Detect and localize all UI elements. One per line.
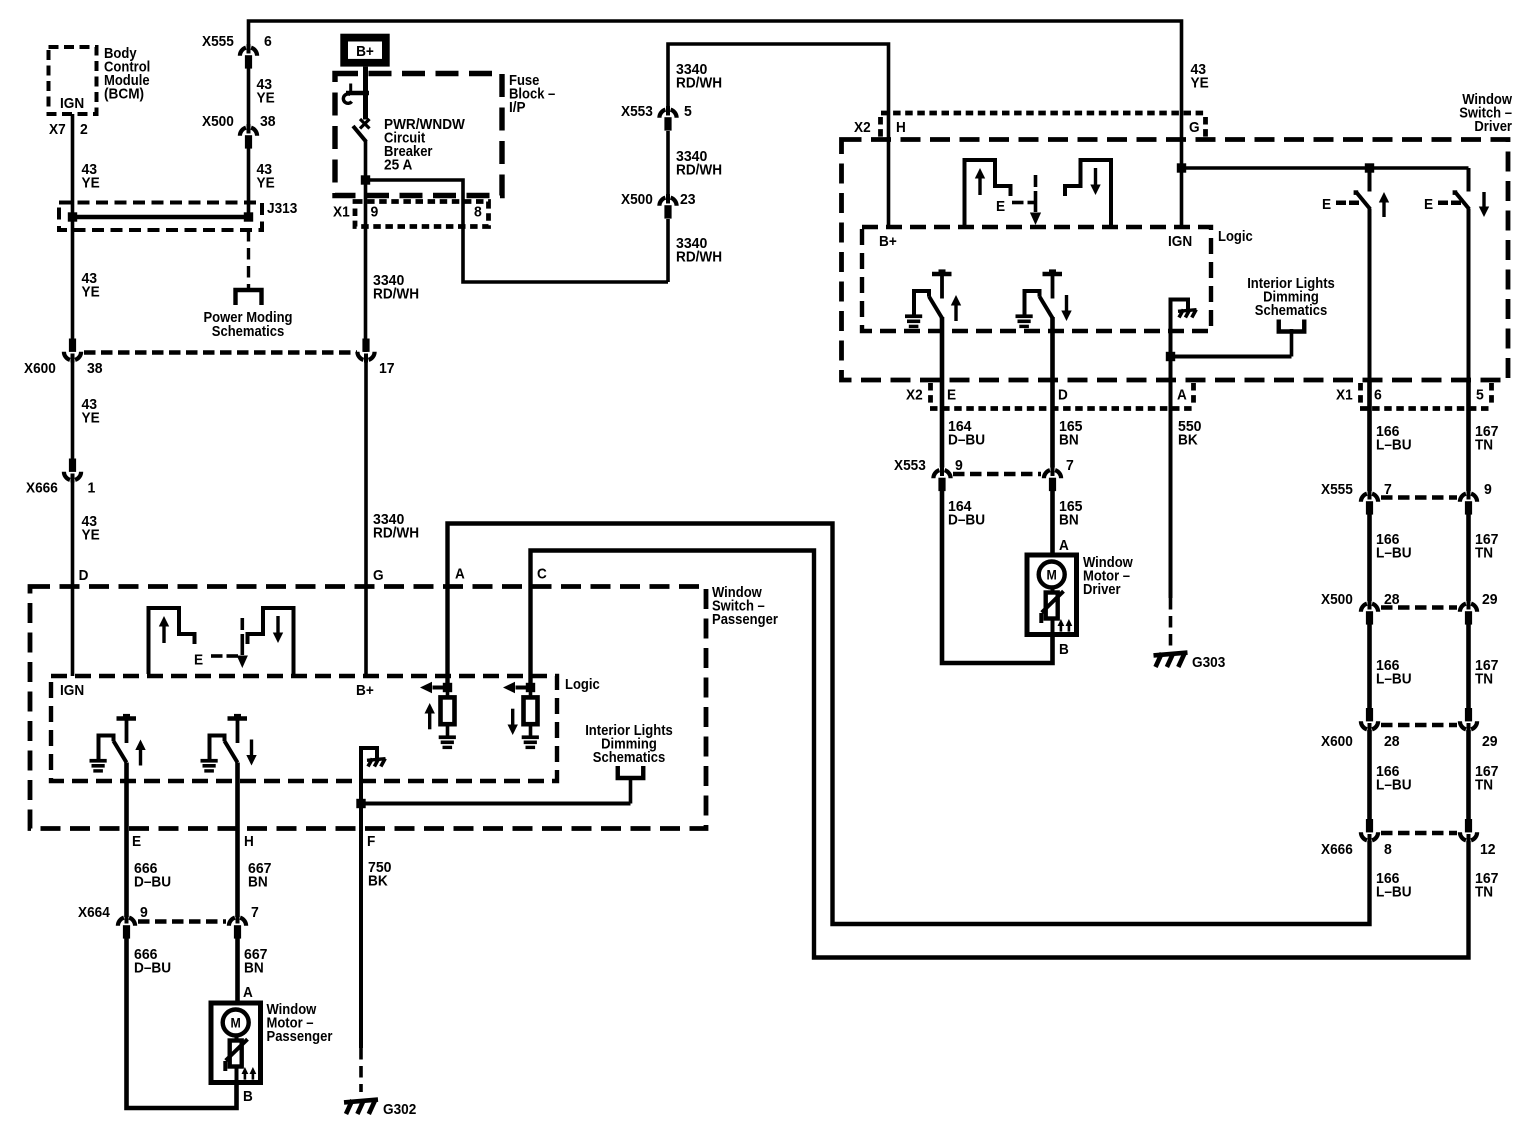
label 166 L-BU: [1376, 871, 1412, 901]
svg-text:12: 12: [1480, 842, 1496, 858]
pin F label: [367, 834, 375, 850]
wire 166 L-BU X1 to X555-7: [1367, 380, 1372, 491]
svg-text:G: G: [1189, 120, 1200, 136]
pin X7 2 of BCM: [49, 122, 88, 138]
wire 167 TN X600 to X666: [1466, 730, 1471, 819]
wire 3340 RD/WH X600-17 down to passenger G: [364, 360, 368, 676]
svg-text:17: 17: [379, 361, 395, 377]
label 167 TN: [1475, 532, 1499, 562]
svg-text:RD/WH: RD/WH: [676, 163, 722, 179]
label 166 L-BU: [1376, 424, 1412, 454]
label 167 TN: [1475, 424, 1499, 454]
label 167 TN: [1475, 871, 1499, 901]
svg-text:L–BU: L–BU: [1376, 778, 1412, 794]
label 167 TN: [1475, 658, 1499, 688]
module: Window Switch - Driver dashed box: [842, 140, 1509, 381]
svg-text:X1: X1: [333, 205, 350, 221]
svg-text:M: M: [1047, 568, 1057, 583]
ground G302: [344, 1100, 416, 1118]
svg-text:L–BU: L–BU: [1376, 672, 1412, 688]
svg-text:TN: TN: [1475, 546, 1493, 562]
wire 165 BN X553 to motor A: [1050, 488, 1055, 555]
label Body Control Module (BCM): [104, 46, 150, 103]
switch up contact (driver): [905, 269, 961, 328]
label 667 BN: [244, 947, 268, 977]
connector X555 pin 9: [1460, 482, 1492, 515]
node B+ inside passenger switch: [356, 683, 374, 699]
pin C of passenger switch: [537, 567, 547, 583]
pin A of driver motor: [1059, 538, 1069, 554]
svg-text:(BCM): (BCM): [104, 87, 144, 103]
svg-text:7: 7: [251, 905, 259, 921]
svg-text:E: E: [1322, 197, 1331, 213]
svg-text:9: 9: [371, 205, 379, 221]
svg-text:E: E: [996, 199, 1005, 215]
svg-text:5: 5: [684, 104, 692, 120]
svg-text:28: 28: [1384, 734, 1400, 750]
switch up contact (passenger): [90, 714, 146, 773]
svg-text:X555: X555: [202, 34, 234, 50]
label 167 TN: [1475, 764, 1499, 794]
connector X600 pin 28: [1321, 708, 1400, 750]
splice pack J313 dashed box: [59, 201, 297, 230]
svg-text:2: 2: [80, 122, 88, 138]
svg-text:BN: BN: [244, 961, 264, 977]
off-page connector Interior Lights Dimming (passenger): [618, 766, 644, 778]
svg-text:G303: G303: [1192, 655, 1225, 671]
svg-text:J313: J313: [267, 201, 297, 217]
svg-text:YE: YE: [82, 285, 100, 301]
module: Body Control Module (BCM) dashed box: [49, 47, 97, 114]
svg-text:Driver: Driver: [1083, 582, 1121, 598]
svg-text:G: G: [373, 568, 384, 584]
connector X555 pin 6: [202, 34, 272, 69]
label 165 BN: [1059, 499, 1083, 529]
label 43 YE: [257, 162, 275, 192]
svg-text:25 A: 25 A: [384, 158, 413, 174]
svg-text:1: 1: [88, 481, 96, 497]
rocker profile up (passenger): [149, 608, 195, 674]
svg-text:RD/WH: RD/WH: [676, 76, 722, 92]
ground stub with chassis symbol at IGN (driver): [1171, 300, 1197, 357]
inline connector dotted line X600 right: [1381, 723, 1457, 727]
connector X553 pin 9: [894, 458, 963, 491]
label 166 L-BU: [1376, 764, 1412, 794]
node IGN inside passenger switch: [60, 683, 84, 699]
svg-text:BN: BN: [248, 875, 268, 891]
svg-text:C: C: [537, 567, 547, 583]
svg-text:YE: YE: [82, 411, 100, 427]
rocker switch E up (driver right): [1322, 168, 1389, 380]
svg-text:IGN: IGN: [1168, 234, 1192, 250]
connector X555 pin 7: [1321, 482, 1392, 515]
svg-text:X664: X664: [78, 905, 111, 921]
pin B of driver motor: [1059, 642, 1069, 658]
inline connector dotted line X553: [953, 472, 1041, 476]
svg-text:29: 29: [1482, 734, 1498, 750]
svg-text:BK: BK: [368, 874, 388, 890]
svg-text:D–BU: D–BU: [134, 961, 171, 977]
module: Window Switch - Passenger dashed box: [30, 587, 706, 829]
svg-text:A: A: [1177, 388, 1187, 404]
svg-text:X1: X1: [1336, 388, 1353, 404]
wire G down to IGN junction: [1180, 113, 1184, 227]
svg-text:YE: YE: [82, 176, 100, 192]
ground G303: [1154, 653, 1226, 671]
svg-text:TN: TN: [1475, 778, 1493, 794]
junction at rocker 1: [1365, 163, 1374, 172]
junction at J313 left: [68, 212, 77, 221]
label 3340 RD/WH: [676, 149, 722, 179]
logic box of driver switch: [862, 227, 1253, 331]
svg-text:I/P: I/P: [509, 100, 526, 116]
junction at J313 right: [244, 212, 253, 221]
label 3340 RD/WH: [373, 512, 419, 542]
pin B of passenger motor: [243, 1089, 253, 1105]
label 43 YE: [257, 77, 275, 107]
wire 164 D-BU switch to X553-9: [940, 317, 945, 468]
svg-text:38: 38: [260, 114, 276, 130]
pin H label: [244, 834, 254, 850]
svg-text:E: E: [1424, 197, 1433, 213]
svg-text:X600: X600: [1321, 734, 1353, 750]
resistor branch C with down arrow: [503, 682, 539, 749]
svg-text:Logic: Logic: [1218, 229, 1253, 245]
ground stub with chassis symbol at F (passenger): [361, 748, 386, 806]
svg-text:X2: X2: [854, 120, 871, 136]
wire 43 YE from BCM pin 2 to J313: [71, 114, 75, 217]
label 3340 RD/WH: [373, 273, 419, 303]
off-page connector Interior Lights Dimming (driver): [1279, 320, 1305, 332]
svg-text:29: 29: [1482, 592, 1498, 608]
motor: Window Motor - Passenger: [211, 1003, 261, 1083]
inline connector dotted line X555: [1381, 495, 1457, 499]
label 166 L-BU: [1376, 532, 1412, 562]
inline connector dotted line X666: [1381, 831, 1457, 835]
inline connector dotted line X600: [84, 350, 357, 354]
svg-text:8: 8: [474, 205, 482, 221]
svg-text:IGN: IGN: [60, 683, 84, 699]
svg-text:D–BU: D–BU: [948, 433, 985, 449]
fuse block dashed box Fuse Block - I/P: [335, 74, 502, 196]
connector X664 pin 9: [78, 905, 148, 939]
svg-text:IGN: IGN: [60, 96, 84, 112]
svg-text:A: A: [455, 567, 465, 583]
svg-text:X555: X555: [1321, 482, 1353, 498]
svg-text:H: H: [244, 834, 254, 850]
wire 166 L-BU X500 to X600: [1367, 622, 1372, 708]
connector X666 pin 12: [1460, 819, 1496, 858]
connector X500 pin 29: [1460, 592, 1498, 625]
svg-text:G302: G302: [383, 1102, 416, 1118]
svg-text:RD/WH: RD/WH: [676, 250, 722, 266]
label Interior Lights Dimming Schematics (driver): [1247, 276, 1335, 319]
switch down contact (driver): [1016, 269, 1072, 328]
svg-text:YE: YE: [1191, 76, 1209, 92]
svg-text:Logic: Logic: [565, 677, 600, 693]
logic box of passenger switch: [51, 676, 600, 781]
svg-text:D–BU: D–BU: [134, 875, 171, 891]
label 164 D-BU: [948, 419, 985, 449]
svg-text:Passenger: Passenger: [267, 1029, 333, 1045]
label 43 YE: [82, 514, 100, 544]
svg-text:X666: X666: [1321, 842, 1353, 858]
svg-text:X500: X500: [621, 192, 653, 208]
svg-text:F: F: [367, 834, 375, 850]
svg-text:X666: X666: [26, 481, 58, 497]
label 165 BN: [1059, 419, 1083, 449]
svg-text:BN: BN: [1059, 433, 1079, 449]
node B+ inside driver switch: [879, 234, 897, 250]
svg-text:YE: YE: [257, 176, 275, 192]
wire from X555-6 up and right to driver switch G: [249, 21, 1182, 113]
svg-text:9: 9: [1484, 482, 1492, 498]
svg-text:X553: X553: [894, 458, 926, 474]
svg-text:TN: TN: [1475, 885, 1493, 901]
svg-text:B+: B+: [356, 683, 374, 699]
svg-text:RD/WH: RD/WH: [373, 287, 419, 303]
label 3340 RD/WH: [676, 236, 722, 266]
label 3340 RD/WH: [676, 62, 722, 92]
svg-text:Driver: Driver: [1474, 119, 1512, 135]
svg-text:A: A: [1059, 538, 1069, 554]
connector X666 pin 1: [26, 459, 95, 497]
bus bar inside J313: [70, 215, 250, 220]
svg-text:TN: TN: [1475, 438, 1493, 454]
wire breaker junction right to X1-8 and down: [366, 180, 669, 282]
connector X500 pin 38: [202, 114, 276, 149]
wire 667 BN from switch H to X664-7: [235, 763, 240, 918]
svg-text:9: 9: [955, 458, 963, 474]
rocker profile down (passenger): [248, 608, 294, 674]
wire from passenger logic C up right down to X666-12 167 TN: [531, 551, 1469, 958]
label Window Switch - Driver: [1459, 92, 1512, 135]
label 667 BN: [248, 861, 272, 891]
svg-text:BN: BN: [1059, 513, 1079, 529]
dashed wire J313 to Power Moding: [247, 230, 250, 289]
connector row X2 pin H: [854, 113, 1206, 137]
svg-text:Schematics: Schematics: [1255, 303, 1327, 319]
svg-text:B+: B+: [879, 234, 897, 250]
svg-text:E: E: [947, 388, 956, 404]
off-page connector to Power Moding Schematics: [236, 290, 262, 305]
wire 750 BK from F to G302: [359, 806, 363, 1092]
wire 666 D-BU X664 to motor loop: [127, 936, 237, 1108]
label Window Motor - Driver: [1083, 555, 1133, 598]
label 43 YE: [82, 271, 100, 301]
pin G of passenger switch: [373, 568, 384, 584]
wire from passenger logic A up right down to X666-8 166 L-BU: [448, 524, 1370, 925]
pin A of passenger switch: [455, 567, 465, 583]
label 666 D-BU: [134, 947, 171, 977]
svg-text:E: E: [194, 653, 203, 669]
switch down contact (passenger): [201, 714, 257, 773]
svg-text:BK: BK: [1178, 433, 1198, 449]
svg-text:YE: YE: [82, 528, 100, 544]
svg-text:6: 6: [264, 34, 272, 50]
svg-text:38: 38: [87, 361, 103, 377]
svg-text:L–BU: L–BU: [1376, 885, 1412, 901]
svg-text:X7: X7: [49, 122, 66, 138]
inline connector dotted line X664: [138, 919, 226, 923]
svg-text:Schematics: Schematics: [593, 750, 665, 766]
pin E label: [132, 834, 141, 850]
wire 550 BK to G303: [1169, 357, 1173, 653]
inline connector dotted line X500: [1381, 605, 1457, 609]
connector X553 pin 7: [1044, 458, 1074, 491]
wire 167 TN X555 to X500: [1466, 512, 1471, 601]
resistor branch A with up arrow: [420, 682, 456, 749]
label Power Moding Schematics: [204, 310, 293, 340]
wire 167 TN X500 to X600: [1466, 622, 1471, 708]
svg-text:B: B: [243, 1089, 253, 1105]
label 164 D-BU: [948, 499, 985, 529]
svg-text:6: 6: [1374, 388, 1382, 404]
label PWR/WNDW Circuit Breaker 25 A: [384, 117, 465, 174]
connector row X1 of fuse block: [333, 202, 489, 227]
rocker profile up (driver): [965, 160, 1011, 226]
svg-text:9: 9: [140, 905, 148, 921]
wire 667 BN X664 to motor A: [235, 936, 240, 1003]
connector row X2 pins E D A: [906, 383, 1194, 409]
connector X500 pin 28: [1321, 592, 1400, 625]
svg-text:Schematics: Schematics: [212, 324, 284, 340]
svg-text:23: 23: [680, 192, 696, 208]
wire 166 L-BU X600 to X666: [1367, 730, 1372, 819]
connector X600 pin 38: [24, 339, 103, 378]
svg-text:X500: X500: [1321, 592, 1353, 608]
label 43 YE (driver G): [1191, 62, 1209, 92]
wire 3340 RD/WH riser to top bus: [668, 44, 889, 282]
svg-text:B: B: [1059, 642, 1069, 658]
svg-text:M: M: [231, 1016, 241, 1031]
label 550 BK: [1178, 419, 1202, 449]
label Interior Lights Dimming Schematics (passenger): [585, 723, 673, 766]
svg-text:TN: TN: [1475, 672, 1493, 688]
svg-text:Passenger: Passenger: [712, 612, 778, 628]
wire 164 D-BU X553 to motor loop: [942, 488, 1053, 663]
wire 167 TN X1 to X555-9: [1466, 380, 1471, 491]
label 750 BK: [368, 860, 392, 890]
connector X664 pin 7: [229, 905, 259, 939]
wire 166 L-BU X555 to X500: [1367, 512, 1372, 601]
pin D of passenger switch: [79, 568, 89, 584]
svg-text:YE: YE: [257, 91, 275, 107]
svg-text:7: 7: [1066, 458, 1074, 474]
wire 165 BN switch to X553-7: [1050, 317, 1055, 468]
svg-text:L–BU: L–BU: [1376, 438, 1412, 454]
wire breaker junction to X1-9: [364, 180, 368, 352]
svg-text:8: 8: [1384, 842, 1392, 858]
label 166 L-BU: [1376, 658, 1412, 688]
pin A of passenger motor: [243, 985, 253, 1001]
wire 43 YE J313 to X600-38: [71, 217, 75, 339]
svg-text:D: D: [79, 568, 89, 584]
connector X553 pin 5: [621, 104, 692, 131]
svg-text:B+: B+: [356, 44, 374, 60]
connector X600 pin 17: [357, 339, 394, 378]
label 666 D-BU: [134, 861, 171, 891]
junction at A (driver): [1166, 352, 1175, 361]
label Window Motor - Passenger: [267, 1002, 333, 1045]
svg-text:X500: X500: [202, 114, 234, 130]
svg-text:X553: X553: [621, 104, 653, 120]
wire 43 YE X555 to X500: [247, 66, 251, 125]
wire IGN feed to rockers: [1182, 166, 1469, 170]
junction at F: [356, 799, 365, 808]
label 43 YE: [82, 162, 100, 192]
wire junction to interior-lights bracket (driver): [1171, 329, 1292, 357]
svg-text:X2: X2: [906, 388, 923, 404]
wire 666 D-BU from switch E to X664-9: [124, 763, 129, 918]
label 43 YE: [82, 397, 100, 427]
junction below breaker: [361, 175, 370, 184]
wire F junction to interior-lights bracket: [361, 777, 631, 804]
wire H into driver switch: [887, 113, 891, 227]
rocker switch E down (driver right): [1424, 168, 1489, 380]
svg-text:L–BU: L–BU: [1376, 546, 1412, 562]
svg-text:D–BU: D–BU: [948, 513, 985, 529]
wire 43 YE X500 to J313: [247, 146, 251, 217]
rocker centre pole with E (driver): [996, 175, 1041, 225]
svg-text:X600: X600: [24, 361, 56, 377]
node IGN inside driver switch: [1168, 234, 1192, 250]
wire 43 YE X600 to X666: [71, 360, 75, 459]
power feed B+ box: [340, 34, 389, 67]
wire 43 YE X666 to passenger IGN: [71, 480, 75, 676]
connector row X1 pins 6 5: [1336, 383, 1492, 409]
label Fuse Block - I/P: [509, 73, 555, 116]
pin G label: [1189, 120, 1200, 136]
connector X600 pin 29: [1460, 708, 1498, 750]
svg-text:A: A: [243, 985, 253, 1001]
rocker centre pole with E (passenger): [194, 618, 248, 669]
svg-text:RD/WH: RD/WH: [373, 526, 419, 542]
junction on G wire: [1177, 163, 1186, 172]
svg-text:5: 5: [1476, 388, 1484, 404]
svg-text:H: H: [896, 120, 906, 136]
svg-text:D: D: [1058, 388, 1068, 404]
motor: Window Motor - Driver: [1027, 555, 1077, 635]
circuit breaker PWR/WNDW 25A: [343, 67, 369, 180]
label Window Switch - Passenger: [712, 585, 778, 628]
connector X666 pin 8: [1321, 819, 1392, 858]
svg-text:E: E: [132, 834, 141, 850]
connector X500 pin 23: [621, 192, 696, 219]
rocker profile down (driver): [1065, 160, 1111, 226]
